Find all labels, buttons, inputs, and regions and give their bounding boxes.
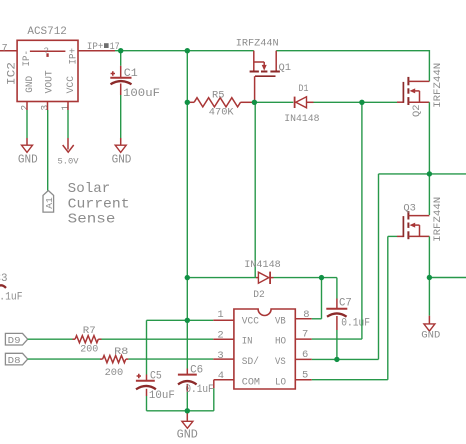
svg-text:IRFZ44N: IRFZ44N: [432, 63, 444, 108]
svg-text:IP+: IP+: [69, 48, 80, 65]
wire: VCC pin1 net: [147, 319, 234, 321]
svg-text:D1: D1: [299, 83, 309, 95]
svg-text:IC2: IC2: [6, 62, 18, 85]
svg-text:0.1uF: 0.1uF: [185, 384, 213, 396]
wire: R8 to SD pin: [128, 358, 234, 360]
svg-text:VCC: VCC: [242, 316, 259, 327]
ground under C1: [115, 138, 126, 152]
node: junction switch node: [427, 171, 432, 176]
svg-text:D9: D9: [8, 335, 21, 346]
svg-text:GND: GND: [177, 429, 198, 442]
svg-text:C5: C5: [150, 371, 162, 383]
svg-text:HO: HO: [275, 337, 286, 348]
wire: D9 to R7: [28, 338, 73, 340]
svg-text:GND: GND: [18, 154, 38, 167]
svg-text:3: 3: [217, 350, 223, 362]
transistor Q3 IRFZ44N: [397, 211, 429, 239]
node A1 : analog pin flag: [43, 191, 55, 213]
svg-text:100uF: 100uF: [123, 88, 160, 100]
svg-text:10uF: 10uF: [149, 390, 175, 402]
svg-text:IRFZ44N: IRFZ44N: [432, 197, 444, 242]
svg-text:VS: VS: [275, 357, 286, 368]
svg-text:0.1uF: 0.1uF: [341, 318, 370, 330]
svg-text:VCC: VCC: [66, 76, 77, 94]
ground under Q3: [424, 316, 435, 331]
svg-text:Current: Current: [68, 196, 130, 212]
capacitor C7 0.1uF: [326, 278, 347, 360]
resistor R8 200: [100, 356, 128, 363]
svg-text:A1: A1: [44, 197, 55, 209]
svg-text:R5: R5: [212, 90, 225, 102]
wire: ACS712 GND pin to ground: [26, 102, 28, 139]
ground at bottom rail: [182, 411, 193, 429]
diode D2 IN4148: [187, 272, 337, 284]
diode D1 IN4148: [254, 97, 362, 108]
wire: bottom ground rail: [147, 410, 214, 412]
node: junction with D2 net: [185, 275, 190, 280]
label Solar Current Sense: [68, 181, 130, 228]
node: junction D2 net / VB pin: [319, 275, 324, 280]
node: junction with R5 net: [185, 100, 190, 105]
resistor R7 200: [73, 336, 234, 343]
svg-text:Sense: Sense: [68, 212, 116, 228]
svg-text:200: 200: [105, 367, 124, 379]
wire: VS pin6 up to switch node: [295, 174, 429, 360]
wire: Q3 source down to ground junction: [428, 236, 430, 277]
wire: vertical from R5/D1 junction down to D2 net: [254, 102, 256, 277]
wire: D8 to R8: [28, 358, 100, 360]
node: junction C7 bottom / VS net: [334, 357, 339, 362]
node: junction top wire / main vertical: [185, 48, 190, 53]
svg-text:IRFZ44N: IRFZ44N: [236, 38, 279, 50]
svg-text:SD/: SD/: [242, 356, 259, 368]
svg-text:1: 1: [217, 309, 223, 321]
svg-text:C1: C1: [124, 68, 138, 80]
svg-text:IN4148: IN4148: [244, 259, 281, 271]
svg-text:2: 2: [217, 330, 223, 342]
svg-text:3: 3: [41, 105, 52, 111]
svg-text:GND: GND: [112, 154, 132, 167]
svg-text:VB: VB: [275, 316, 286, 327]
svg-text:Solar: Solar: [68, 181, 111, 197]
wire: LO pin5 up to Q3 gate: [295, 236, 397, 379]
node: junction D1 net / HO vertical / Q2 gate: [359, 100, 364, 105]
wire: ACS712 VOUT to A1 flag: [47, 102, 49, 191]
transistor Q1 IRFZ44N: [250, 51, 280, 103]
svg-text:Q2: Q2: [411, 105, 423, 118]
wire: junction to ground symbol: [428, 278, 430, 316]
node: junction top wire / C1: [118, 48, 123, 53]
svg-text:VOUT: VOUT: [44, 70, 55, 93]
op-amp U1 : ACS712 current sensor IC2 body: [17, 40, 78, 101]
svg-text:200: 200: [80, 344, 98, 356]
capacitor C1 100uF (polarized): [110, 51, 131, 95]
svg-text:7: 7: [2, 43, 8, 54]
op-amp U2 : gate driver IC body: [234, 309, 295, 389]
svg-text:GND: GND: [25, 76, 36, 93]
svg-text:R7: R7: [83, 325, 96, 337]
wire: IP+ pin lead: [78, 50, 115, 52]
wire: top net from Q1 drain to Q2 drain: [276, 51, 429, 82]
svg-text:ACS712: ACS712: [27, 26, 67, 38]
svg-text:?: ?: [44, 46, 49, 56]
node: junction R5 / Q1 gate / D1: [252, 100, 257, 105]
capacitor C3 (cut off at left edge): [0, 273, 22, 303]
svg-text:1: 1: [61, 105, 72, 111]
svg-text:C7: C7: [339, 298, 352, 310]
svg-text:Q3: Q3: [403, 202, 416, 214]
wire: Q2 gate wire: [362, 101, 397, 103]
node: junction with VCC pin1 net: [185, 318, 190, 323]
wire: HO pin7 up to Q2 gate junction: [295, 102, 362, 339]
capacitor C5 10uF (polarized): [136, 320, 156, 411]
resistor R5 470K: [187, 98, 254, 107]
node: junction Q3 source / GND / right exit: [427, 275, 432, 280]
wire: switch node to Q3 drain: [428, 174, 430, 215]
svg-text:COM: COM: [242, 377, 260, 388]
svg-text:IN4148: IN4148: [284, 113, 319, 125]
wire: VB pin8 up to D2 net: [295, 278, 321, 319]
svg-text:GND: GND: [421, 330, 440, 342]
capacitor C6 0.1uF: [178, 369, 197, 411]
wire: COM pin4 branch: [214, 380, 234, 411]
svg-text:IP-: IP-: [22, 50, 33, 67]
transistor Q2 IRFZ44N: [397, 77, 429, 105]
svg-text:C6: C6: [190, 365, 203, 377]
svg-text:Q1: Q1: [279, 62, 292, 74]
wire: junction exits right edge: [429, 277, 466, 279]
svg-text:470K: 470K: [209, 107, 234, 119]
svg-text:D8: D8: [8, 355, 21, 366]
svg-text:2: 2: [21, 105, 32, 111]
supply symbol 5.0V: [63, 138, 74, 152]
connector D8 flag: [5, 353, 27, 366]
svg-text:LO: LO: [275, 377, 286, 388]
svg-text:4: 4: [218, 370, 224, 382]
wire: C1 to ground: [120, 95, 122, 138]
svg-text:C3: C3: [0, 273, 8, 285]
svg-text:IN: IN: [242, 337, 253, 348]
connector D9 flag: [5, 333, 27, 346]
svg-text:5.0V: 5.0V: [58, 156, 80, 166]
wire: top net from IP+ to Q1 source: [115, 50, 254, 52]
wire: switch node exits right edge: [429, 173, 466, 175]
wire: Q2 source to switch-node junction: [428, 102, 430, 174]
svg-text:R8: R8: [114, 346, 128, 358]
ground under ACS712 pin 2: [22, 138, 33, 152]
node: junction ground rail: [185, 408, 190, 413]
svg-text:D2: D2: [253, 289, 264, 301]
svg-text:0.1uF: 0.1uF: [0, 291, 22, 303]
wire: main vertical bus x=187.3 from top net down to C6: [186, 51, 188, 369]
wire: ACS712 VCC pin to 5.0V supply: [67, 102, 69, 139]
wire: IP- pin lead exiting left edge: [0, 50, 17, 52]
